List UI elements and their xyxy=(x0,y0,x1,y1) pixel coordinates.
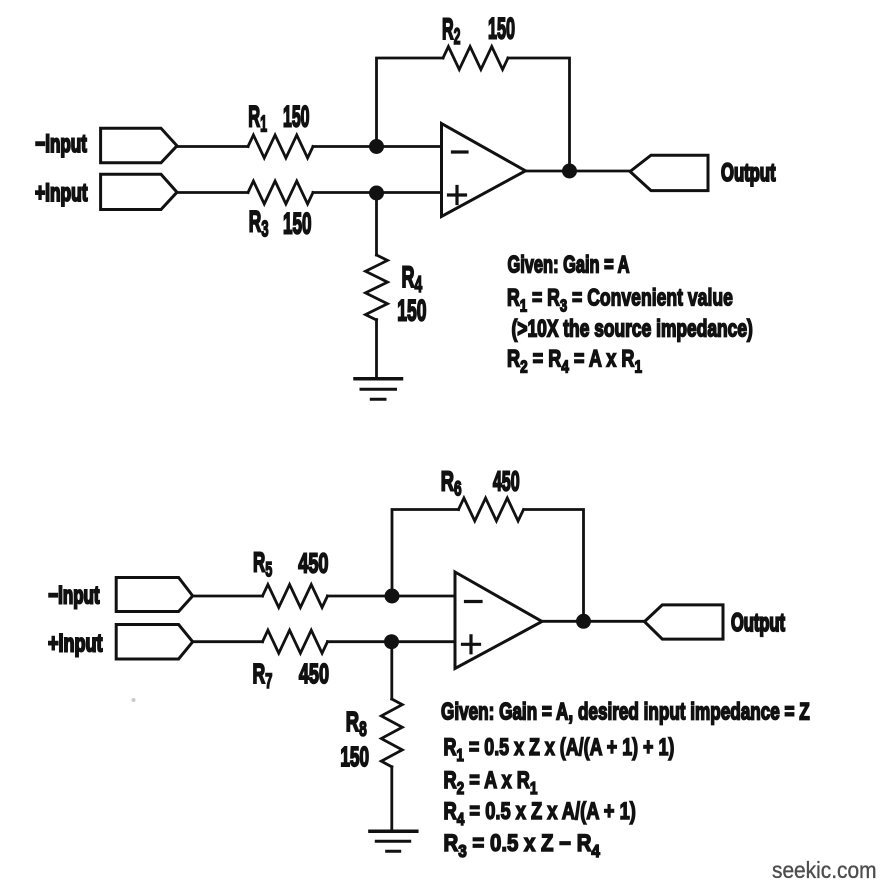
svg-text:Output: Output xyxy=(731,610,785,637)
svg-text:Output: Output xyxy=(721,160,776,187)
svg-text:150: 150 xyxy=(283,208,311,241)
svg-text:150: 150 xyxy=(488,12,515,46)
svg-text:150: 150 xyxy=(283,100,309,134)
svg-text:450: 450 xyxy=(299,658,329,689)
svg-text:450: 450 xyxy=(493,465,520,497)
svg-text:+Input: +Input xyxy=(48,629,102,658)
svg-text:seekic.com: seekic.com xyxy=(772,857,876,883)
svg-text:450: 450 xyxy=(298,548,328,579)
svg-text:(>10X the source impedance): (>10X the source impedance) xyxy=(512,316,753,342)
svg-text:Given: Gain = A, desired input: Given: Gain = A, desired input impedance… xyxy=(441,699,810,725)
svg-text:150: 150 xyxy=(397,295,426,328)
svg-text:+Input: +Input xyxy=(35,179,87,207)
svg-text:150: 150 xyxy=(340,740,369,771)
svg-text:−Input: −Input xyxy=(48,581,99,609)
svg-text:−Input: −Input xyxy=(35,130,87,158)
svg-text:Given: Gain = A: Given: Gain = A xyxy=(508,251,630,278)
